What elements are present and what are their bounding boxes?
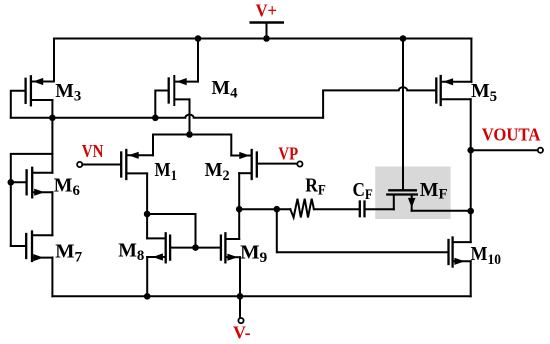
terminal VN bbox=[77, 162, 82, 167]
wire: M5 gate riser and line (hops over MF gate line) bbox=[323, 87, 435, 118]
transistor M10 (NMOS) bbox=[449, 238, 471, 267]
svg-text:M7: M7 bbox=[55, 241, 82, 266]
junction: VOUTA node bbox=[467, 147, 474, 154]
wire: mirror gate link (M1 drain node to M8/M9 gates) bbox=[147, 214, 195, 248]
svg-text:M6: M6 bbox=[54, 174, 81, 199]
wire: compensation node line to RF bbox=[239, 208, 290, 210]
transistor M4 (PMOS) bbox=[169, 76, 198, 105]
wire: M3 source drop from rail bbox=[53, 39, 55, 82]
wire: M9 source drop bbox=[239, 257, 241, 296]
junction: left rail / M6 gate bbox=[8, 179, 15, 186]
wire: M4 drain drop to tail bbox=[189, 99, 191, 134]
junction: M8/M9 gate line bbox=[192, 244, 199, 251]
svg-text:M9: M9 bbox=[240, 241, 267, 266]
wire: MF gate line from rail bbox=[402, 39, 404, 189]
wire: M1 drain down to M8 drain bbox=[146, 173, 148, 238]
transistor M3 (PMOS) bbox=[26, 76, 54, 105]
junction: MF drain / output column bbox=[467, 208, 474, 215]
wire: VN input lead bbox=[83, 164, 120, 166]
wire: RF to CF bbox=[314, 208, 359, 210]
transistor M8 (NMOS, mirrored, diode-connected) bbox=[147, 233, 170, 262]
wire: MF drain to output column bbox=[412, 210, 471, 212]
junction: M2 drain / M9 drain / comp node bbox=[236, 206, 243, 213]
svg-text:V+: V+ bbox=[256, 1, 277, 21]
svg-text:RF: RF bbox=[305, 175, 326, 199]
junction: M1 drain / mirror gates bbox=[144, 211, 151, 218]
junction: node line / M4 gate bbox=[152, 115, 159, 122]
transistor M7 (NMOS) bbox=[26, 232, 52, 262]
wire: M8 source drop bbox=[146, 257, 148, 296]
wire: M5 source drop from rail bbox=[470, 39, 472, 82]
wire: node line (M3 drain / M4 gate net, hops over M4 drain) bbox=[11, 115, 323, 118]
svg-text:CF: CF bbox=[353, 179, 373, 203]
wire: bottom rail bbox=[52, 295, 470, 297]
svg-text:VOUTA: VOUTA bbox=[482, 125, 541, 145]
svg-text:M2: M2 bbox=[205, 159, 230, 184]
transistor M5 (PMOS) bbox=[436, 76, 471, 105]
svg-text:VP: VP bbox=[278, 143, 298, 163]
wire: M3 drain branch down to M6 drain bbox=[51, 118, 53, 173]
transistor M9 (NMOS) bbox=[221, 233, 240, 262]
terminal VOUTA bbox=[538, 148, 543, 153]
svg-text:M1: M1 bbox=[155, 159, 178, 184]
svg-text:M8: M8 bbox=[118, 239, 144, 264]
junction: rail / V+ tap bbox=[263, 35, 270, 42]
wire: M6 gate stub bbox=[11, 181, 26, 183]
wire: left gate rail to M6/M7 gates bbox=[11, 154, 53, 246]
transistor M6 (NMOS) bbox=[27, 168, 53, 198]
wire: M4 source drop from rail bbox=[197, 39, 199, 82]
wire: M8/M9 gate line bbox=[171, 247, 220, 249]
wire: M10 gate branch bbox=[277, 209, 448, 252]
wire: M2 drain riser bbox=[238, 173, 240, 209]
svg-text:M5: M5 bbox=[471, 80, 497, 105]
wire: M3 gate loop (diode connection) bbox=[11, 91, 25, 118]
junction: tail / M4 drain bbox=[186, 131, 193, 138]
svg-text:M10: M10 bbox=[471, 243, 502, 268]
wire: top V+ rail bbox=[54, 38, 471, 40]
wire: VP input lead bbox=[258, 163, 297, 165]
wire: V+ tap bbox=[266, 23, 268, 39]
svg-text:VN: VN bbox=[82, 141, 104, 161]
capacitor CF bbox=[360, 202, 365, 217]
terminal VP bbox=[297, 161, 302, 166]
wire: differential pair tail bbox=[153, 135, 231, 156]
junction: bottom rail / M8 source bbox=[144, 293, 151, 300]
wire: V- tap bbox=[239, 296, 241, 317]
svg-text:M3: M3 bbox=[55, 80, 81, 105]
wire: M7 source drop to bottom rail bbox=[51, 258, 53, 297]
junction: rail / MF gate line bbox=[400, 35, 407, 42]
terminal V- bbox=[238, 318, 243, 323]
wire: CF to MF source bbox=[366, 208, 394, 210]
resistor RF bbox=[290, 199, 314, 218]
wire: M7 gate stub bbox=[11, 245, 25, 247]
svg-text:V-: V- bbox=[233, 323, 251, 343]
V+ supply bar bbox=[251, 21, 283, 24]
wire: M4 gate link down to node line bbox=[155, 91, 167, 118]
transistor M2 (PMOS, input pair, mirrored) bbox=[231, 150, 256, 179]
wire: M10 source drop bbox=[470, 261, 472, 296]
wire: M6 source to M7 drain bbox=[51, 192, 53, 235]
wire: M5 drain / VOUTA / M10 drain column bbox=[470, 99, 472, 242]
junction: comp node / M10 gate branch bbox=[274, 206, 281, 213]
transistor MF (compensation device, gate on top) bbox=[387, 190, 417, 211]
wire: M3 drain drop bbox=[51, 100, 53, 118]
wire: VOUTA lead bbox=[471, 149, 538, 151]
junction: node line / M3 drain bbox=[49, 115, 56, 122]
svg-text:M4: M4 bbox=[211, 77, 238, 102]
wire: M9 drain riser bbox=[238, 209, 240, 239]
transistor M1 (PMOS, input pair) bbox=[121, 150, 153, 179]
highlight box around MF bbox=[375, 167, 450, 220]
junction: bottom rail / M9 source / V- bbox=[237, 293, 244, 300]
junction: rail / M4 source bbox=[195, 35, 202, 42]
